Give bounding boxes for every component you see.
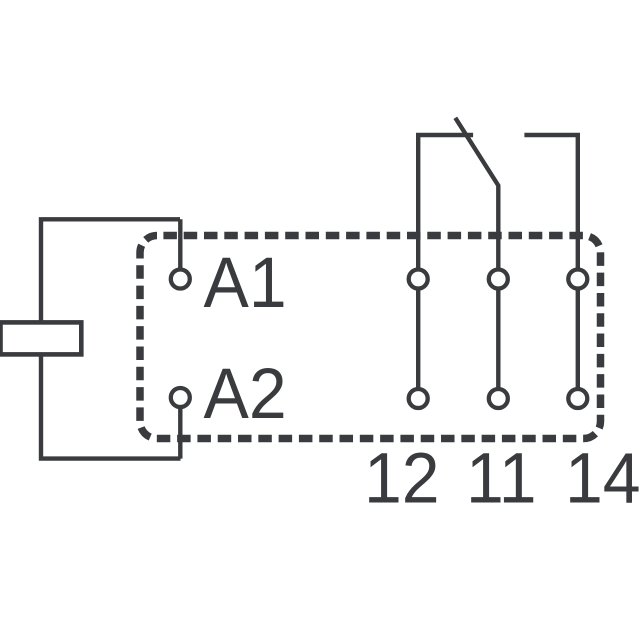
pin A1 (171, 270, 190, 289)
wire coil loop top (41, 219, 180, 322)
pin 12 top (409, 270, 428, 289)
wire A2 stem (178, 409, 182, 459)
coil K1 (1, 322, 82, 354)
pin A2 (171, 388, 190, 407)
svg-text:A2: A2 (204, 354, 287, 434)
pin 14 top (568, 270, 587, 289)
wire A1 stem (178, 219, 182, 268)
pin 12 bottom (409, 389, 428, 408)
svg-text:A1: A1 (204, 243, 287, 323)
svg-text:12: 12 (364, 438, 440, 518)
pin 11 top (489, 270, 508, 289)
svg-text:14: 14 (565, 438, 640, 518)
switch blade common 11 (455, 118, 498, 268)
wire coil loop bottom (41, 354, 181, 458)
wire contact 12 inner (416, 290, 420, 388)
wire contact 12 top (418, 135, 473, 268)
relay body dashed outline (140, 236, 601, 439)
wire contact 14 inner (576, 290, 580, 388)
wire contact 11 inner (496, 290, 500, 388)
pin 11 bottom (489, 389, 508, 408)
svg-text:11: 11 (466, 438, 537, 518)
wire contact 14 top (524, 135, 577, 268)
pin 14 bottom (568, 389, 587, 408)
